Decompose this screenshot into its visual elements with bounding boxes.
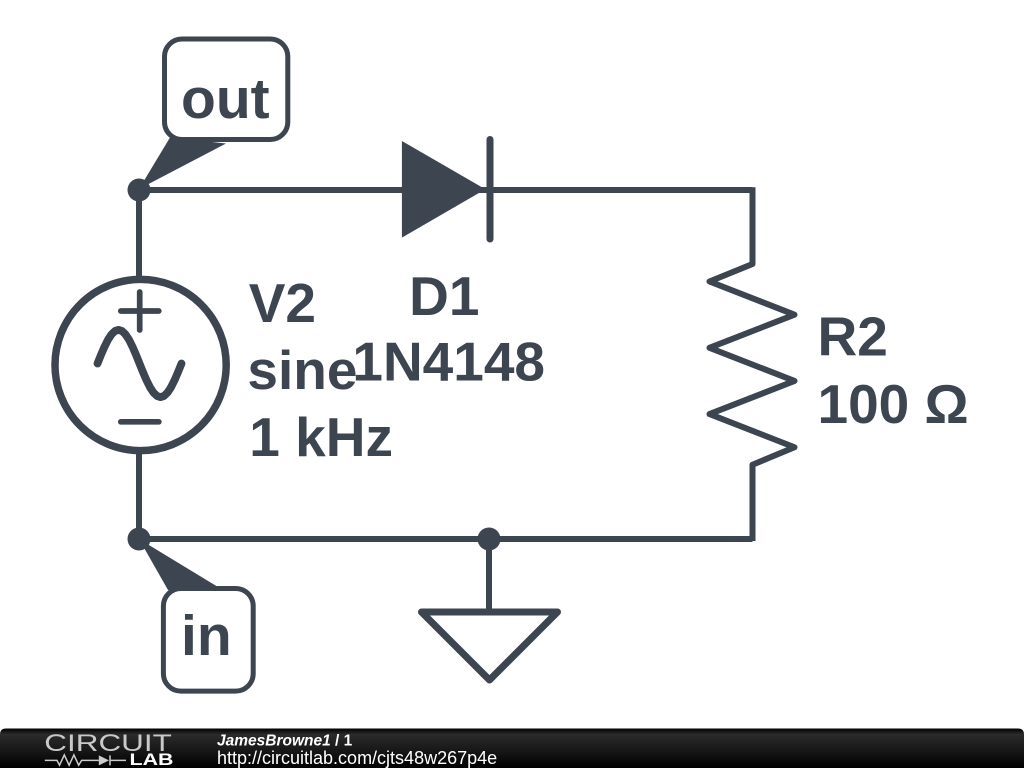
- wire: out net horizontal from node to resistor corner: [139, 187, 753, 193]
- net flag in: [139, 539, 253, 691]
- svg-text:in: in: [181, 604, 232, 668]
- svg-text:V2: V2: [249, 272, 316, 334]
- wire: source top lead: [136, 187, 142, 280]
- svg-text:D1: D1: [409, 265, 479, 327]
- resistor R2: [710, 264, 795, 465]
- ground: [422, 612, 558, 680]
- net flag out: [139, 39, 288, 189]
- wire: ground stub: [486, 539, 492, 614]
- voltage source V2: [55, 279, 226, 450]
- label: R2 100 ohm: [818, 306, 969, 435]
- svg-text:sine: sine: [247, 339, 357, 401]
- svg-text:JamesBrowne1 / 1: JamesBrowne1 / 1: [217, 733, 353, 750]
- svg-text:out: out: [181, 67, 270, 131]
- svg-text:1N4148: 1N4148: [352, 331, 545, 393]
- svg-text:LAB: LAB: [130, 751, 174, 768]
- footer bar: [0, 729, 1024, 769]
- wire: resistor bottom lead: [750, 465, 756, 541]
- node: ground junction: [478, 528, 501, 551]
- diode D1: [402, 140, 490, 240]
- label: V2 sine 1 kHz: [247, 272, 393, 468]
- logo squiggle resistor-diode: [45, 755, 126, 766]
- wire: resistor top lead: [750, 187, 756, 264]
- label: D1 1N4148: [352, 265, 545, 393]
- node: out junction: [128, 179, 151, 202]
- wire: bottom net horizontal: [139, 536, 753, 542]
- svg-text:100 Ω: 100 Ω: [818, 373, 969, 435]
- svg-text:R2: R2: [818, 306, 888, 368]
- wire: source bottom lead: [136, 450, 142, 539]
- svg-text:http://circuitlab.com/cjts48w2: http://circuitlab.com/cjts48w267p4e: [217, 748, 497, 768]
- svg-text:1 kHz: 1 kHz: [249, 406, 393, 468]
- node: in junction: [128, 528, 151, 551]
